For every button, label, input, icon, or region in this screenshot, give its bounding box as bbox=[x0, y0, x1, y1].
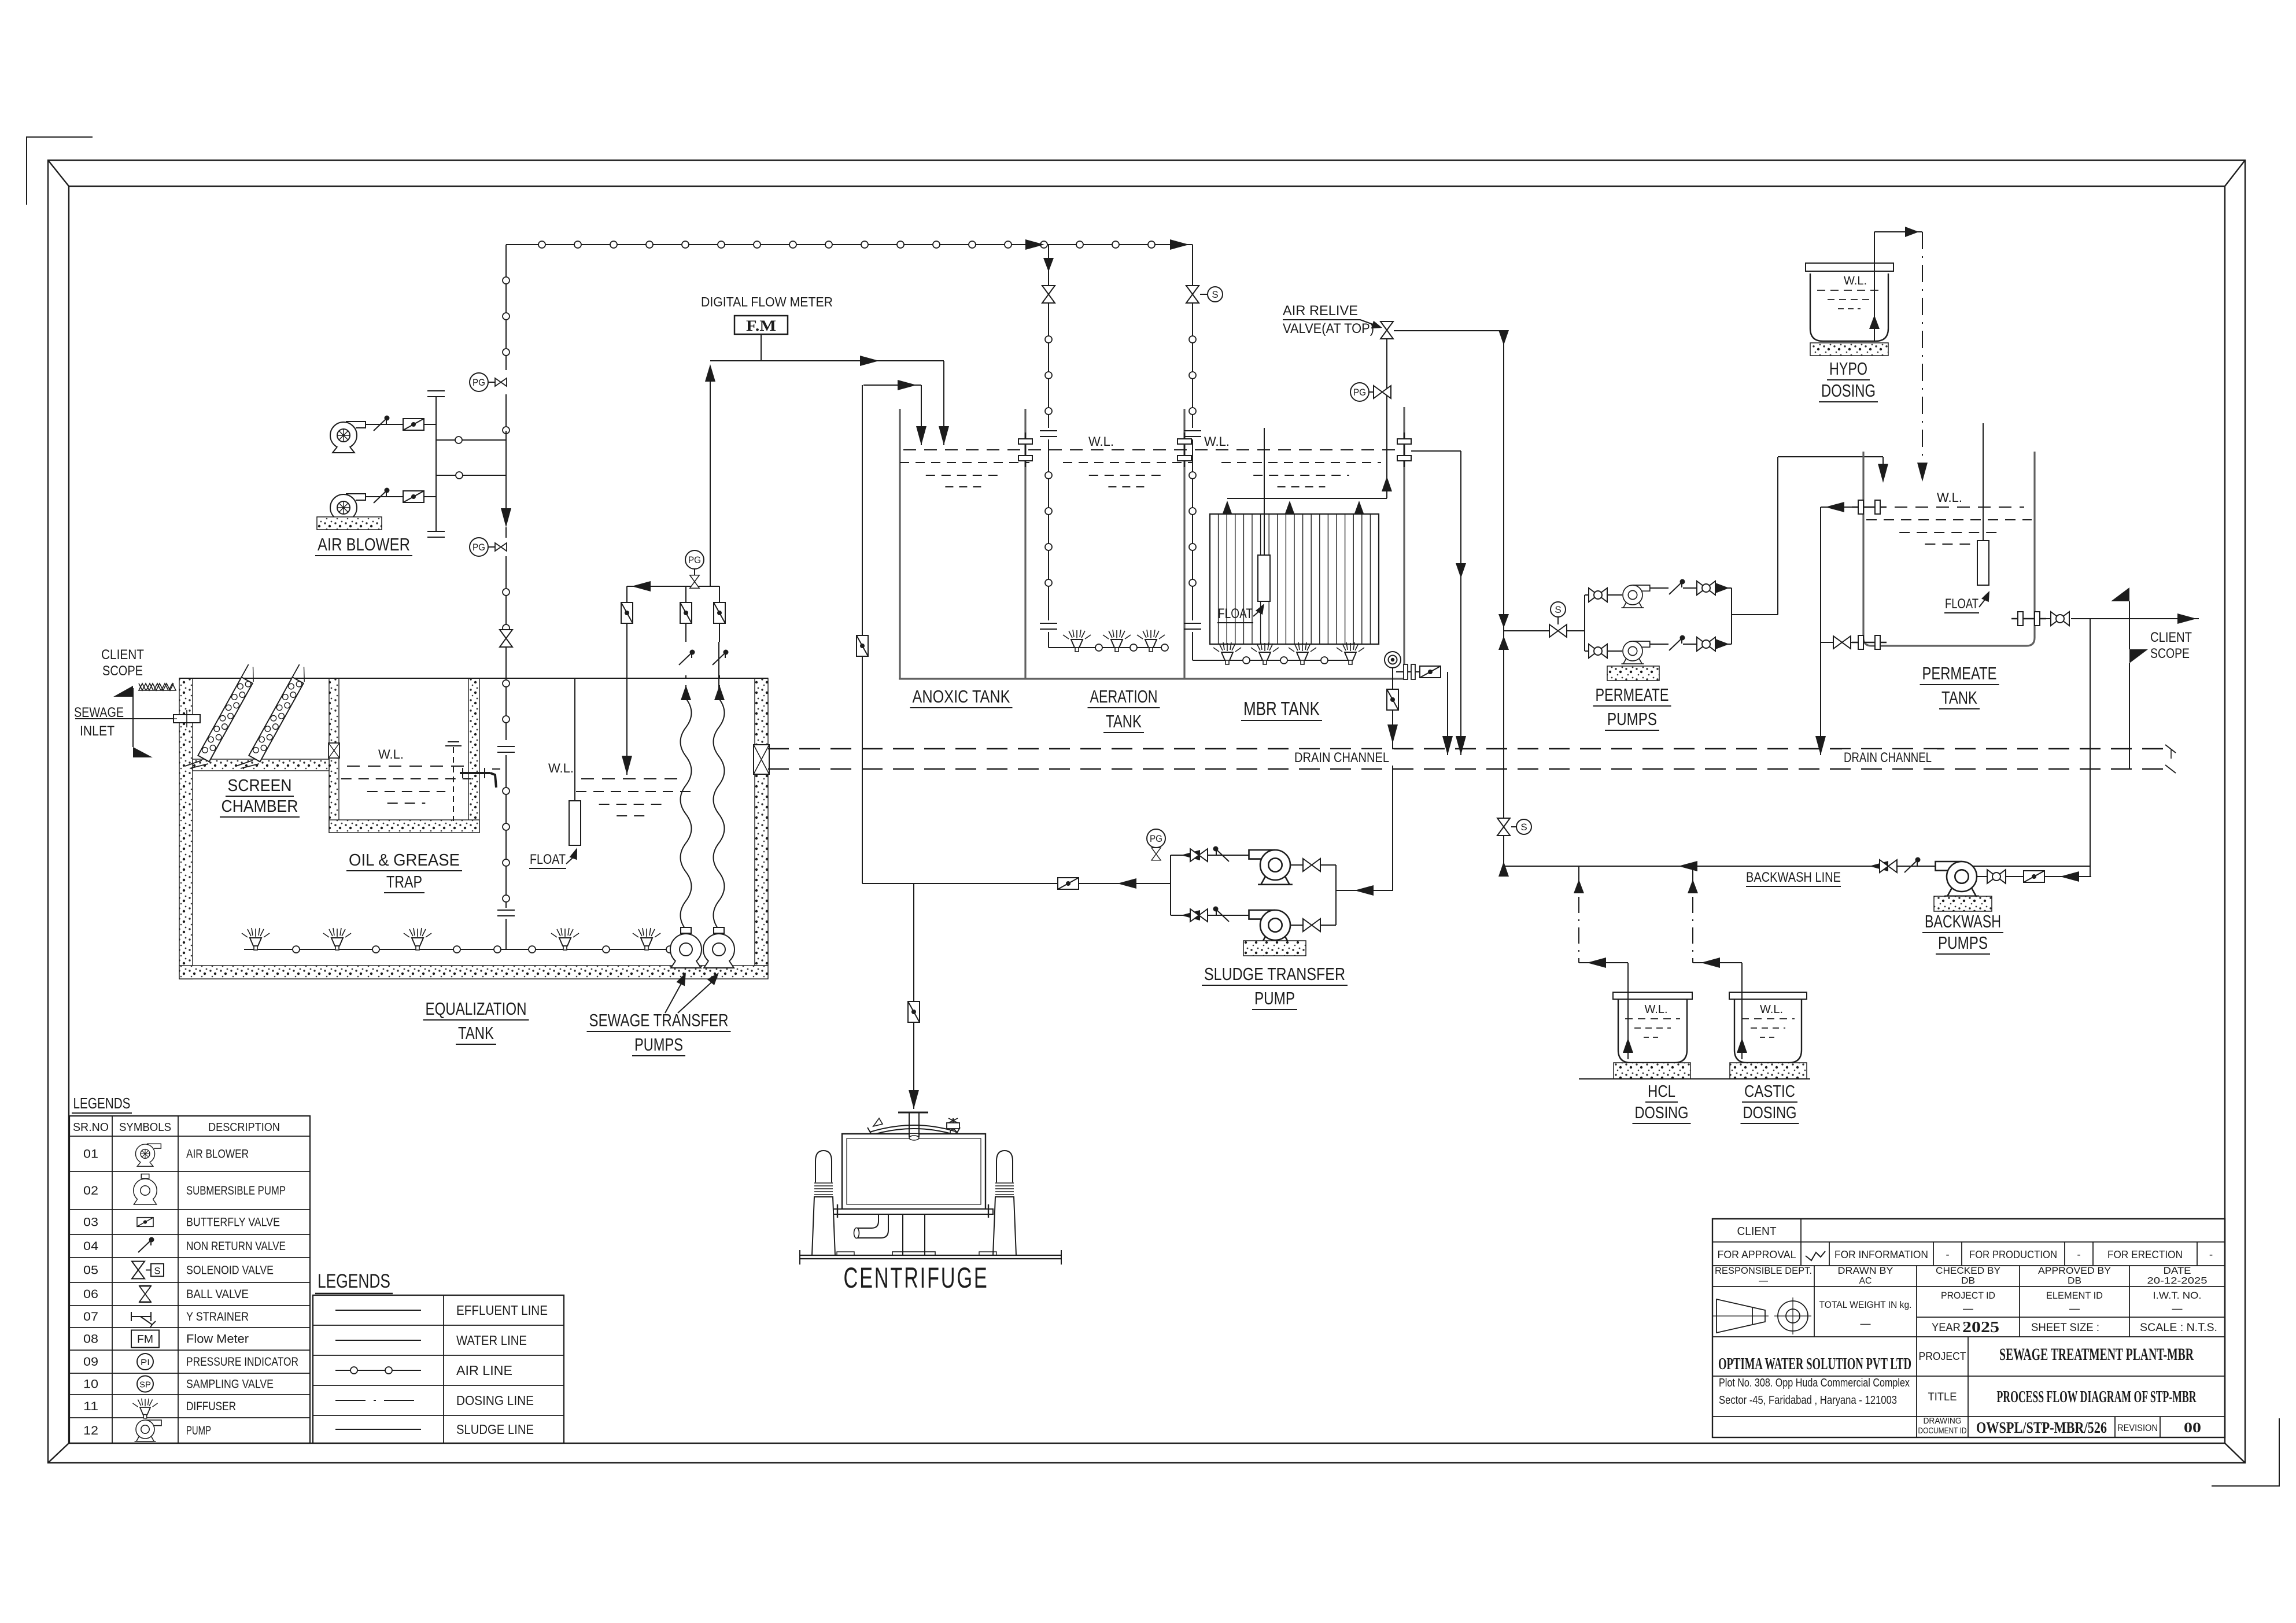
svg-text:DOSING: DOSING bbox=[1635, 1104, 1689, 1122]
svg-text:WATER LINE: WATER LINE bbox=[456, 1333, 527, 1348]
svg-text:09: 09 bbox=[83, 1355, 98, 1369]
svg-text:PUMP: PUMP bbox=[186, 1424, 211, 1437]
svg-text:-: - bbox=[2209, 1249, 2213, 1261]
svg-text:BACKWASH: BACKWASH bbox=[1925, 911, 2001, 931]
svg-text:SEWAGE TRANSFER: SEWAGE TRANSFER bbox=[589, 1010, 729, 1030]
svg-text:CASTIC: CASTIC bbox=[1744, 1082, 1795, 1101]
svg-text:SLUDGE TRANSFER: SLUDGE TRANSFER bbox=[1204, 964, 1345, 984]
svg-text:CHECKED BY: CHECKED BY bbox=[1936, 1265, 2000, 1276]
svg-text:SCREEN: SCREEN bbox=[228, 777, 292, 795]
svg-text:DRAIN CHANNEL: DRAIN CHANNEL bbox=[1294, 750, 1389, 766]
svg-text:W.L.: W.L. bbox=[1937, 490, 1962, 505]
svg-text:HYPO: HYPO bbox=[1829, 358, 1867, 379]
svg-text:CHAMBER: CHAMBER bbox=[222, 797, 298, 816]
svg-text:TANK: TANK bbox=[458, 1023, 494, 1043]
svg-text:DRAWING: DRAWING bbox=[1924, 1416, 1962, 1426]
svg-text:W.L.: W.L. bbox=[1088, 434, 1114, 449]
svg-text:PUMPS: PUMPS bbox=[1938, 933, 1988, 953]
svg-text:OIL & GREASE: OIL & GREASE bbox=[349, 851, 460, 870]
svg-text:EFFLUENT LINE: EFFLUENT LINE bbox=[456, 1303, 548, 1318]
svg-text:PUMPS: PUMPS bbox=[634, 1034, 683, 1055]
svg-text:SYMBOLS: SYMBOLS bbox=[119, 1121, 171, 1134]
svg-text:FLOAT: FLOAT bbox=[1945, 596, 1978, 612]
svg-text:DB: DB bbox=[1961, 1276, 1975, 1286]
svg-text:CLIENT: CLIENT bbox=[1737, 1225, 1777, 1238]
svg-text:SLUDGE LINE: SLUDGE LINE bbox=[456, 1422, 534, 1437]
svg-text:TRAP: TRAP bbox=[386, 873, 422, 892]
svg-text:PROJECT: PROJECT bbox=[1919, 1351, 1966, 1363]
svg-text:TITLE: TITLE bbox=[1928, 1391, 1957, 1403]
svg-text:S: S bbox=[154, 1266, 160, 1277]
svg-text:—: — bbox=[2172, 1303, 2183, 1314]
svg-text:08: 08 bbox=[83, 1333, 98, 1346]
svg-text:INLET: INLET bbox=[80, 723, 115, 739]
svg-text:VALVE(AT TOP): VALVE(AT TOP) bbox=[1283, 321, 1374, 337]
svg-text:—: — bbox=[2069, 1303, 2080, 1314]
svg-text:TOTAL WEIGHT IN kg.: TOTAL WEIGHT IN kg. bbox=[1819, 1299, 1912, 1310]
svg-text:EQUALIZATION: EQUALIZATION bbox=[426, 999, 527, 1019]
svg-text:FLOAT: FLOAT bbox=[1218, 606, 1253, 622]
svg-text:Flow Meter: Flow Meter bbox=[186, 1333, 249, 1346]
svg-text:W.L.: W.L. bbox=[548, 761, 574, 775]
svg-text:ELEMENT ID: ELEMENT ID bbox=[2046, 1290, 2103, 1301]
svg-text:SCOPE: SCOPE bbox=[102, 663, 143, 679]
svg-text:—: — bbox=[1861, 1318, 1871, 1329]
svg-text:SEWAGE TREATMENT PLANT-MBR: SEWAGE TREATMENT PLANT-MBR bbox=[1999, 1345, 2194, 1364]
svg-text:SHEET SIZE :: SHEET SIZE : bbox=[2031, 1322, 2099, 1334]
svg-text:CENTRIFUGE: CENTRIFUGE bbox=[844, 1262, 989, 1294]
svg-text:SR.NO: SR.NO bbox=[73, 1121, 109, 1134]
svg-text:NON RETURN VALVE: NON RETURN VALVE bbox=[186, 1240, 286, 1253]
svg-text:W.L.: W.L. bbox=[1760, 1003, 1783, 1016]
svg-text:DOCUMENT ID: DOCUMENT ID bbox=[1918, 1426, 1967, 1436]
svg-text:—: — bbox=[1759, 1276, 1768, 1286]
svg-text:I.W.T. NO.: I.W.T. NO. bbox=[2153, 1290, 2202, 1301]
svg-text:01: 01 bbox=[83, 1148, 98, 1161]
svg-text:W.L.: W.L. bbox=[1645, 1003, 1668, 1016]
svg-text:DRAIN CHANNEL: DRAIN CHANNEL bbox=[1844, 750, 1932, 766]
svg-text:SCOPE: SCOPE bbox=[2150, 646, 2190, 661]
svg-text:LEGENDS: LEGENDS bbox=[318, 1270, 390, 1292]
svg-text:SOLENOID VALVE: SOLENOID VALVE bbox=[186, 1264, 274, 1277]
svg-text:BACKWASH LINE: BACKWASH LINE bbox=[1746, 870, 1841, 885]
svg-text:AERATION: AERATION bbox=[1090, 686, 1158, 707]
svg-text:F.M: F.M bbox=[746, 317, 776, 334]
svg-text:W.L.: W.L. bbox=[1844, 275, 1867, 287]
svg-text:HCL: HCL bbox=[1648, 1082, 1675, 1101]
svg-text:00: 00 bbox=[2184, 1420, 2201, 1436]
svg-text:TANK: TANK bbox=[1941, 687, 1977, 708]
svg-text:FM: FM bbox=[137, 1334, 153, 1346]
svg-text:Y STRAINER: Y STRAINER bbox=[186, 1310, 249, 1323]
svg-text:AIR BLOWER: AIR BLOWER bbox=[318, 534, 410, 554]
svg-text:PERMEATE: PERMEATE bbox=[1596, 685, 1669, 705]
svg-text:FOR APPROVAL: FOR APPROVAL bbox=[1718, 1249, 1796, 1260]
svg-text:RESPONSIBLE DEPT.: RESPONSIBLE DEPT. bbox=[1715, 1265, 1812, 1276]
svg-text:05: 05 bbox=[83, 1264, 98, 1277]
svg-text:OPTIMA WATER SOLUTION PVT LTD: OPTIMA WATER SOLUTION PVT LTD bbox=[1718, 1355, 1911, 1373]
svg-text:PERMEATE: PERMEATE bbox=[1922, 663, 1997, 683]
svg-text:PI: PI bbox=[141, 1358, 150, 1367]
svg-text:AIR RELIVE: AIR RELIVE bbox=[1283, 303, 1358, 319]
svg-text:APPROVED BY: APPROVED BY bbox=[2038, 1265, 2111, 1276]
svg-text:YEAR :: YEAR : bbox=[1932, 1322, 1966, 1334]
svg-text:AIR BLOWER: AIR BLOWER bbox=[186, 1148, 249, 1161]
svg-text:DOSING: DOSING bbox=[1743, 1104, 1797, 1122]
svg-text:DB: DB bbox=[2068, 1276, 2081, 1286]
svg-text:W.L.: W.L. bbox=[1204, 434, 1230, 449]
svg-text:-: - bbox=[1946, 1249, 1949, 1261]
svg-text:DIGITAL FLOW METER: DIGITAL FLOW METER bbox=[701, 294, 833, 309]
svg-text:AIR LINE: AIR LINE bbox=[456, 1363, 512, 1378]
svg-text:TANK: TANK bbox=[1106, 711, 1142, 731]
svg-text:20-12-2025: 20-12-2025 bbox=[2147, 1276, 2208, 1286]
svg-text:SAMPLING VALVE: SAMPLING VALVE bbox=[186, 1378, 274, 1391]
svg-text:04: 04 bbox=[83, 1240, 98, 1253]
svg-text:DATE: DATE bbox=[2164, 1265, 2191, 1276]
svg-text:SP: SP bbox=[139, 1380, 151, 1390]
svg-text:MBR TANK: MBR TANK bbox=[1243, 698, 1320, 719]
svg-text:2025: 2025 bbox=[1962, 1318, 1999, 1336]
svg-text:PRESSURE INDICATOR: PRESSURE INDICATOR bbox=[186, 1355, 298, 1369]
svg-text:—: — bbox=[1963, 1303, 1973, 1314]
svg-text:PROJECT ID: PROJECT ID bbox=[1941, 1290, 1995, 1301]
svg-text:PUMPS: PUMPS bbox=[1607, 709, 1657, 729]
svg-text:BUTTERFLY VALVE: BUTTERFLY VALVE bbox=[186, 1216, 280, 1229]
svg-text:CLIENT: CLIENT bbox=[101, 647, 144, 663]
svg-text:ANOXIC TANK: ANOXIC TANK bbox=[913, 686, 1010, 707]
svg-text:02: 02 bbox=[83, 1184, 98, 1197]
svg-text:LEGENDS: LEGENDS bbox=[73, 1095, 131, 1112]
svg-text:FOR ERECTION: FOR ERECTION bbox=[2107, 1249, 2183, 1260]
svg-text:SUBMERSIBLE PUMP: SUBMERSIBLE PUMP bbox=[186, 1184, 286, 1197]
svg-text:-: - bbox=[2077, 1249, 2080, 1261]
svg-text:PROCESS FLOW DIAGRAM OF STP-MB: PROCESS FLOW DIAGRAM OF STP-MBR bbox=[1997, 1388, 2197, 1406]
svg-text:CLIENT: CLIENT bbox=[2150, 630, 2192, 645]
svg-text:FLOAT: FLOAT bbox=[530, 852, 566, 867]
svg-text:DRAWN BY: DRAWN BY bbox=[1838, 1265, 1893, 1276]
svg-text:06: 06 bbox=[83, 1288, 98, 1301]
svg-text:03: 03 bbox=[83, 1216, 98, 1229]
svg-text:DOSING: DOSING bbox=[1821, 380, 1876, 401]
svg-text:11: 11 bbox=[83, 1400, 98, 1413]
svg-text:PUMP: PUMP bbox=[1254, 988, 1295, 1008]
svg-text:AC: AC bbox=[1859, 1276, 1872, 1286]
svg-text:DOSING LINE: DOSING LINE bbox=[456, 1393, 534, 1408]
svg-text:Sector -45, Faridabad , Haryan: Sector -45, Faridabad , Haryana - 121003 bbox=[1719, 1394, 1897, 1407]
svg-text:Plot No. 308. Opp Huda Commerc: Plot No. 308. Opp Huda Commercial Comple… bbox=[1719, 1377, 1910, 1389]
svg-text:FOR INFORMATION: FOR INFORMATION bbox=[1834, 1249, 1928, 1260]
svg-text:12: 12 bbox=[83, 1424, 98, 1437]
svg-text:SEWAGE: SEWAGE bbox=[74, 705, 124, 720]
svg-text:REVISION: REVISION bbox=[2117, 1422, 2158, 1433]
svg-text:W.L.: W.L. bbox=[378, 747, 404, 761]
svg-text:SCALE : N.T.S.: SCALE : N.T.S. bbox=[2140, 1322, 2217, 1334]
svg-text:OWSPL/STP-MBR/526: OWSPL/STP-MBR/526 bbox=[1976, 1419, 2107, 1436]
svg-text:BALL VALVE: BALL VALVE bbox=[186, 1288, 249, 1301]
svg-text:DESCRIPTION: DESCRIPTION bbox=[208, 1121, 280, 1134]
svg-text:07: 07 bbox=[83, 1310, 98, 1323]
svg-text:10: 10 bbox=[83, 1378, 98, 1391]
svg-text:FOR PRODUCTION: FOR PRODUCTION bbox=[1969, 1249, 2057, 1260]
svg-text:DIFFUSER: DIFFUSER bbox=[186, 1400, 236, 1413]
